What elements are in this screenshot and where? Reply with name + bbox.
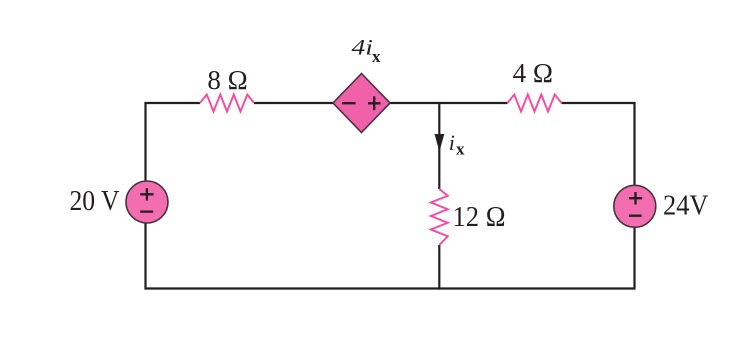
svg-text:12 Ω: 12 Ω bbox=[453, 202, 506, 233]
svg-text:4i: 4i bbox=[352, 35, 374, 60]
svg-text:20 V: 20 V bbox=[70, 186, 120, 217]
svg-text:x: x bbox=[456, 139, 465, 158]
svg-text:i: i bbox=[449, 130, 455, 155]
svg-text:8 Ω: 8 Ω bbox=[207, 65, 247, 95]
svg-text:4 Ω: 4 Ω bbox=[513, 58, 553, 88]
svg-text:x: x bbox=[372, 47, 381, 66]
svg-text:24V: 24V bbox=[663, 191, 709, 222]
